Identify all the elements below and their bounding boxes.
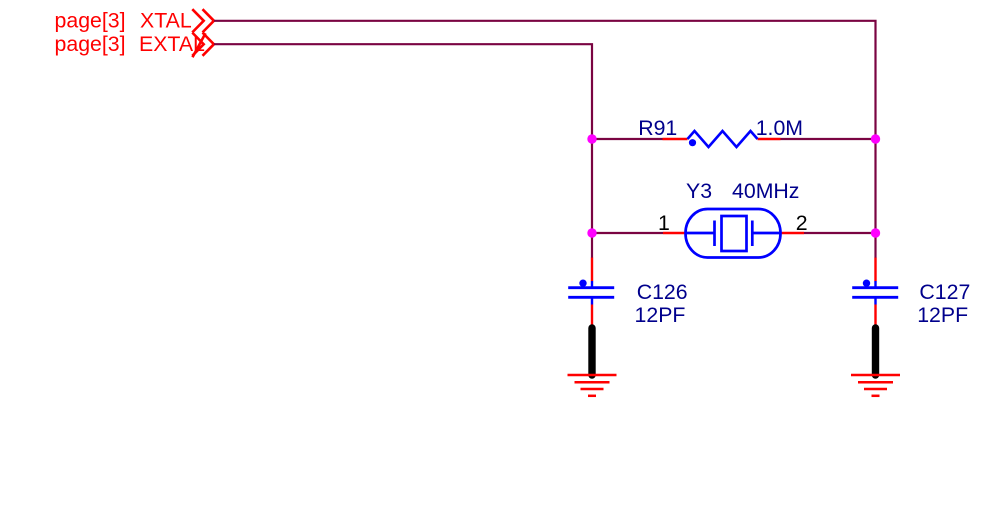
junction node left-resistor [587, 134, 596, 143]
crystal Y3 pin stub right [780, 232, 804, 234]
wire right column crystal row to C127 [874, 233, 876, 258]
resistor R91 pin stub left [663, 138, 688, 140]
off-page connector EXTAL (page[3]) [55, 32, 214, 57]
pin number 1 [658, 211, 670, 235]
crystal Y3 pin stub left [663, 232, 686, 234]
ground (left, GND_EARTH) [568, 375, 617, 396]
capacitor C127 pin stub top [874, 258, 876, 282]
junction node left-crystal [587, 228, 596, 237]
off-page connector XTAL (page[3]) [55, 9, 214, 33]
junction node right-crystal [871, 228, 880, 237]
label C126 [637, 280, 688, 304]
value 12PF (right) [917, 303, 968, 327]
capacitor C126 [568, 280, 614, 305]
wire XTAL net: top horizontal then down right column [214, 21, 876, 139]
wire resistor row left segment [592, 138, 663, 140]
wire left column crystal row to C126 [591, 233, 593, 258]
label R91 [638, 116, 677, 140]
capacitor C127 [852, 280, 898, 305]
wire thick black segment to ground (right) [872, 328, 879, 375]
pin number 2 [796, 211, 808, 235]
svg-text:1.0M: 1.0M [756, 116, 803, 140]
wire crystal row right segment [804, 232, 876, 234]
wire left column between resistor row and crystal row [591, 139, 593, 233]
svg-text:12PF: 12PF [917, 303, 968, 327]
svg-text:C126: C126 [637, 280, 688, 304]
svg-text:page[3]: page[3] [55, 32, 126, 56]
svg-text:2: 2 [796, 211, 808, 235]
svg-text:XTAL: XTAL [140, 9, 192, 33]
capacitor C126 pin stub top [591, 258, 593, 282]
value 1.0M [756, 116, 803, 140]
label C127 [919, 280, 970, 304]
value 40MHz [732, 179, 799, 203]
wire crystal row left segment [592, 232, 663, 234]
svg-text:Y3: Y3 [686, 179, 712, 203]
svg-text:page[3]: page[3] [55, 9, 126, 33]
crystal Y3 [686, 209, 781, 258]
label Y3 [686, 179, 712, 203]
wire right column between resistor row and crystal row [874, 139, 876, 233]
value 12PF (left) [635, 303, 686, 327]
capacitor C127 pin stub bottom [874, 305, 876, 325]
svg-text:C127: C127 [919, 280, 970, 304]
svg-text:1: 1 [658, 211, 670, 235]
resistor R91 pin stub right [758, 138, 781, 140]
wire EXTAL net: second horizontal then down left column [214, 44, 592, 139]
svg-text:40MHz: 40MHz [732, 179, 799, 203]
wire thick black segment to ground (left) [588, 328, 595, 375]
wire resistor row right segment [781, 138, 876, 140]
resistor R91 [688, 131, 758, 147]
junction node right-resistor [871, 134, 880, 143]
ground (right, GND_EARTH) [851, 375, 900, 396]
svg-text:R91: R91 [638, 116, 677, 140]
svg-text:12PF: 12PF [635, 303, 686, 327]
capacitor C126 pin stub bottom [591, 305, 593, 325]
